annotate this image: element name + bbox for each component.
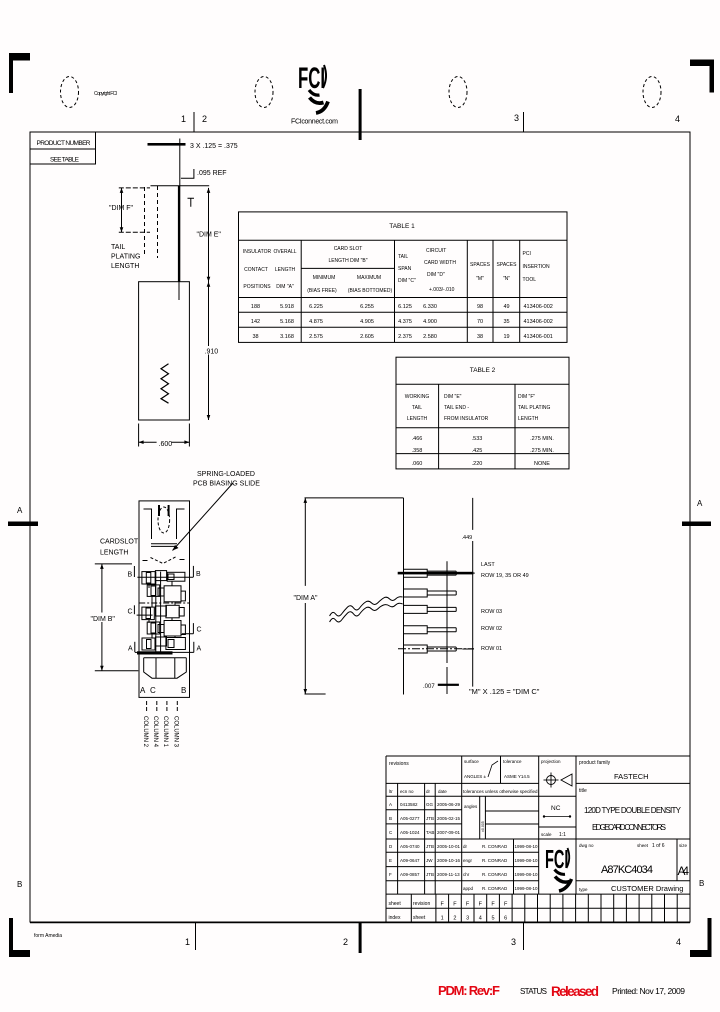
table 1 outer box	[239, 212, 568, 343]
svg-text:TAIL: TAIL	[111, 244, 125, 251]
svg-text:COLUMN 1: COLUMN 1	[162, 716, 168, 748]
svg-text:CONTACT: CONTACT	[244, 267, 268, 273]
svg-text:C: C	[150, 686, 156, 695]
svg-text:INSERTION: INSERTION	[523, 264, 551, 270]
svg-text:4: 4	[675, 114, 680, 124]
svg-text:COLUMN 4: COLUMN 4	[152, 716, 158, 748]
svg-text:6.330: 6.330	[423, 304, 437, 310]
svg-text:38: 38	[252, 334, 258, 340]
svg-text:appd: appd	[463, 886, 474, 891]
cluster dash-dot line	[139, 602, 190, 604]
connector body outline	[139, 501, 190, 698]
svg-text:+.003/-.010: +.003/-.010	[429, 287, 455, 293]
label .910	[204, 346, 219, 355]
svg-text:5: 5	[491, 916, 494, 922]
column ticks	[146, 701, 148, 712]
pin 4	[404, 626, 457, 634]
svg-text:2005-02-15: 2005-02-15	[437, 816, 461, 821]
svg-text:C: C	[389, 830, 393, 835]
dim A top extension	[305, 497, 404, 499]
svg-text:TOOL: TOOL	[523, 277, 537, 283]
svg-text:ASME Y14.5: ASME Y14.5	[504, 774, 530, 779]
svg-text:STATUS: STATUS	[520, 987, 547, 996]
svg-text:.275 MIN.: .275 MIN.	[530, 436, 554, 442]
svg-text:5.918: 5.918	[280, 304, 294, 310]
svg-text:LENGTH: LENGTH	[407, 416, 428, 422]
svg-text:19: 19	[503, 334, 509, 340]
svg-text:index: index	[389, 915, 401, 921]
svg-text:1: 1	[441, 916, 444, 922]
svg-text:B: B	[17, 880, 22, 889]
svg-text:INSULATOR: INSULATOR	[243, 249, 272, 255]
svg-text:"DIM A": "DIM A"	[294, 595, 319, 602]
svg-text:surface: surface	[464, 759, 479, 764]
svg-text:2.580: 2.580	[423, 334, 437, 340]
svg-text:.007: .007	[423, 684, 435, 690]
svg-text:.095 REF: .095 REF	[197, 170, 227, 177]
svg-text:A05-1024: A05-1024	[400, 830, 420, 835]
hidden line left	[144, 187, 146, 257]
zone tick left	[8, 522, 38, 527]
svg-text:2.605: 2.605	[360, 334, 374, 340]
svg-text:LENGTH: LENGTH	[100, 550, 128, 557]
registration ellipse 4	[643, 77, 661, 108]
svg-text:TAB: TAB	[426, 830, 434, 835]
svg-text:"M" X .125 = "DIM C": "M" X .125 = "DIM C"	[469, 687, 540, 696]
svg-text:TABLE 2: TABLE 2	[470, 367, 496, 374]
corner mark top-right	[690, 60, 714, 93]
svg-text:ROW 02: ROW 02	[481, 626, 502, 632]
svg-text:angles: angles	[464, 804, 478, 809]
pcb centerline vertical	[179, 139, 181, 187]
svg-text:0413582: 0413582	[400, 802, 418, 807]
registration ellipse 1	[61, 77, 79, 108]
svg-text:3: 3	[514, 113, 519, 123]
zone tick bottom center	[359, 922, 362, 953]
svg-text:A05-0740: A05-0740	[400, 844, 420, 849]
svg-text:ANGLES ±: ANGLES ±	[464, 774, 487, 779]
dim B extension bottom	[95, 670, 139, 672]
table 2 outer box	[396, 357, 569, 469]
svg-text:1999-08-10: 1999-08-10	[515, 872, 539, 877]
svg-text:title: title	[579, 788, 587, 794]
svg-text:4: 4	[676, 937, 681, 947]
svg-text:LENGTH: LENGTH	[111, 263, 139, 270]
svg-text:R. CONRAD: R. CONRAD	[482, 872, 508, 877]
corner mark bottom-right	[690, 918, 712, 957]
table 1 data row 2	[251, 319, 553, 325]
svg-text:B: B	[196, 571, 201, 578]
pin 2	[404, 589, 457, 597]
svg-text:F: F	[441, 902, 445, 908]
svg-text:.425: .425	[472, 448, 483, 454]
bracket .095	[181, 169, 194, 178]
hidden line right	[157, 186, 159, 258]
svg-text:PLATING: PLATING	[111, 254, 140, 261]
svg-text:FCIconnect.com: FCIconnect.com	[291, 119, 338, 126]
svg-text:1 of 6: 1 of 6	[652, 843, 665, 849]
table 1 data row 1	[251, 304, 553, 310]
svg-text:F: F	[504, 902, 508, 908]
svg-text:F: F	[453, 902, 457, 908]
insulator body rect	[139, 282, 190, 420]
svg-text:size: size	[679, 843, 687, 848]
svg-text:"DIM B": "DIM B"	[91, 616, 116, 623]
svg-text:6: 6	[504, 916, 507, 922]
svg-text:LENGTH: LENGTH	[518, 416, 539, 422]
svg-text:A: A	[389, 802, 392, 807]
slide right bracket	[177, 509, 185, 539]
svg-text:4: 4	[479, 916, 482, 922]
svg-text:CARDSLOT: CARDSLOT	[100, 539, 139, 546]
svg-text:LENGTH: LENGTH	[275, 267, 296, 273]
svg-text:SPACES: SPACES	[497, 262, 518, 268]
svg-text:B: B	[181, 686, 186, 695]
registration ellipse 2	[255, 77, 273, 108]
dim B dimension line	[101, 564, 103, 671]
svg-text:date: date	[438, 789, 447, 794]
svg-text:142: 142	[251, 319, 260, 325]
svg-text:4.875: 4.875	[309, 319, 323, 325]
insulator face line	[403, 498, 405, 695]
insulator top line	[151, 185, 210, 187]
svg-text:A05-0277: A05-0277	[400, 816, 420, 821]
svg-text:3.168: 3.168	[280, 334, 294, 340]
contact group row3	[142, 605, 184, 623]
svg-text:A: A	[128, 646, 133, 653]
table 1 data row 3	[252, 334, 552, 340]
svg-text:A4: A4	[678, 864, 690, 878]
svg-text:TABLE 1: TABLE 1	[389, 223, 415, 230]
svg-text:6.225: 6.225	[309, 304, 323, 310]
svg-text:revisions: revisions	[389, 761, 409, 767]
svg-text:JTB: JTB	[426, 816, 434, 821]
dim B extension top	[95, 563, 132, 565]
registration ellipse 3	[449, 77, 467, 108]
FCI logo top	[298, 62, 328, 113]
svg-text:1999-08-10: 1999-08-10	[515, 886, 539, 891]
svg-text:sheet: sheet	[637, 843, 649, 848]
svg-text:A09-0857: A09-0857	[400, 872, 420, 877]
title block vertical lines	[397, 783, 399, 894]
zone divider top 1	[193, 112, 195, 132]
svg-text:DIM "C": DIM "C"	[398, 278, 416, 284]
svg-text:F: F	[389, 872, 392, 877]
zone divider bottom 1	[195, 922, 197, 950]
zone divider top 2	[523, 112, 525, 132]
dim A dimension line	[304, 498, 306, 694]
svg-text:35: 35	[503, 319, 509, 325]
svg-text:3: 3	[466, 916, 469, 922]
svg-text:B: B	[128, 572, 133, 579]
svg-text:.358: .358	[412, 448, 423, 454]
svg-text:2005-10-01: 2005-10-01	[437, 844, 461, 849]
svg-text:sheet: sheet	[389, 901, 402, 907]
svg-text:2.575: 2.575	[309, 334, 323, 340]
svg-text:dr: dr	[463, 844, 468, 849]
svg-text:2: 2	[202, 114, 207, 124]
svg-text:"N": "N"	[503, 276, 510, 282]
svg-text:.466: .466	[412, 436, 423, 442]
svg-text:GG: GG	[426, 802, 434, 807]
dim F dimension line	[121, 188, 123, 232]
slide chevron dashed	[151, 557, 177, 564]
svg-text:2007-09-01: 2007-09-01	[437, 830, 461, 835]
svg-text:F: F	[479, 902, 483, 908]
dim .449 ticks	[459, 572, 475, 574]
svg-text:1999-08-10: 1999-08-10	[515, 858, 539, 863]
contact group row2	[147, 585, 185, 607]
svg-text:38: 38	[477, 334, 483, 340]
svg-text:2009-10-16: 2009-10-16	[437, 858, 461, 863]
dim .600 line	[139, 441, 190, 443]
svg-text:R. CONRAD: R. CONRAD	[482, 844, 508, 849]
svg-text:49: 49	[503, 304, 509, 310]
dim .449 line	[472, 498, 474, 687]
FCI logo title block	[545, 846, 572, 891]
svg-text:dr: dr	[426, 789, 431, 794]
svg-text:FASTECH: FASTECH	[614, 772, 649, 781]
contact group row4	[147, 621, 185, 639]
svg-text:F: F	[466, 902, 470, 908]
svg-text:NC: NC	[551, 805, 561, 812]
slide oval posts	[158, 505, 160, 516]
svg-text:(BIAS BOTTOMED): (BIAS BOTTOMED)	[348, 288, 393, 294]
svg-text:4.375: 4.375	[398, 319, 412, 325]
svg-text:TAIL: TAIL	[398, 254, 408, 260]
svg-text:413406-001: 413406-001	[524, 334, 553, 340]
svg-text:scale: scale	[541, 832, 552, 837]
table 1 grid	[239, 239, 568, 241]
svg-text:188: 188	[251, 304, 260, 310]
label DIM B	[90, 613, 113, 623]
svg-text:FROM INSULATOR: FROM INSULATOR	[444, 416, 489, 422]
svg-text:ROW 19, 35 OR 49: ROW 19, 35 OR 49	[481, 573, 529, 579]
svg-text:(BIAS FREE): (BIAS FREE)	[307, 288, 337, 294]
svg-text:sheet: sheet	[413, 915, 426, 921]
svg-text:4.905: 4.905	[360, 319, 374, 325]
svg-text:ecn no: ecn no	[400, 789, 414, 794]
svg-text:D: D	[389, 844, 393, 849]
svg-text:SEE TABLE: SEE TABLE	[50, 157, 80, 164]
cluster center rails	[156, 572, 161, 652]
pin centerline vertical	[446, 561, 448, 663]
contact squiggle	[161, 364, 169, 404]
svg-text:2: 2	[343, 937, 348, 947]
break wavy lines	[330, 597, 403, 616]
bottom cup	[144, 658, 187, 678]
svg-text:"M": "M"	[476, 276, 484, 282]
svg-text:3 X .125 = .375: 3 X .125 = .375	[190, 143, 238, 150]
svg-text:PCI: PCI	[523, 251, 531, 257]
svg-text:413406-002: 413406-002	[524, 319, 553, 325]
svg-text:DIM "E": DIM "E"	[444, 394, 462, 400]
tick .095	[188, 198, 195, 207]
svg-text:98: 98	[477, 304, 483, 310]
datum cross	[446, 667, 448, 694]
svg-text:120D TYPE DOUBLE DENSITY: 120D TYPE DOUBLE DENSITY	[584, 806, 682, 815]
svg-text:JTB: JTB	[426, 872, 434, 877]
svg-text:1: 1	[181, 114, 186, 124]
svg-text:2: 2	[453, 916, 456, 922]
svg-text:NONE: NONE	[534, 461, 550, 467]
zone divider bottom 2	[523, 922, 525, 950]
svg-text:.533: .533	[472, 436, 483, 442]
svg-text:1999-08-10: 1999-08-10	[515, 844, 539, 849]
svg-text:MAXIMUM: MAXIMUM	[357, 275, 381, 281]
svg-text:FCI: FCI	[298, 62, 325, 95]
svg-text:.220: .220	[472, 461, 483, 467]
svg-text:DIM "D": DIM "D"	[427, 272, 445, 278]
svg-text:6.125: 6.125	[398, 304, 412, 310]
svg-text:R. CONRAD: R. CONRAD	[482, 886, 508, 891]
svg-text:COLUMN 3: COLUMN 3	[173, 716, 179, 748]
svg-text:OVERALL: OVERALL	[273, 249, 296, 255]
svg-text:413406-002: 413406-002	[524, 304, 553, 310]
svg-text:DIM "A": DIM "A"	[276, 284, 294, 290]
title block horizontal lines	[386, 782, 539, 784]
product number box	[30, 132, 96, 164]
svg-text:PCB BIASING SLIDE: PCB BIASING SLIDE	[193, 481, 260, 488]
svg-text:A: A	[197, 646, 202, 653]
svg-text:WORKING: WORKING	[405, 394, 430, 400]
svg-text:C: C	[197, 627, 202, 634]
row line A with thick bar	[135, 651, 194, 653]
svg-text:PDM: Rev:F: PDM: Rev:F	[438, 983, 500, 998]
svg-text:projection: projection	[541, 759, 561, 764]
pcb edge bar	[148, 143, 186, 146]
svg-text:CARD WIDTH: CARD WIDTH	[424, 260, 456, 266]
svg-text:.060: .060	[412, 461, 423, 467]
svg-text:POSITIONS: POSITIONS	[243, 284, 271, 290]
approval rows	[463, 844, 538, 891]
svg-text:CUSTOMER Drawing: CUSTOMER Drawing	[611, 884, 683, 893]
svg-text:LENGTH DIM "B": LENGTH DIM "B"	[328, 258, 367, 264]
svg-text:2.375: 2.375	[398, 334, 412, 340]
svg-text:"DIM F": "DIM F"	[109, 205, 134, 212]
svg-text:Copyright FCI: Copyright FCI	[94, 91, 117, 97]
svg-text:4.900: 4.900	[423, 319, 437, 325]
zone tick top center	[359, 89, 362, 140]
svg-text:.449: .449	[462, 535, 473, 541]
zone tick right	[682, 522, 711, 527]
svg-text:A87KC4034: A87KC4034	[601, 864, 653, 876]
svg-text:revision: revision	[413, 901, 430, 907]
pin 3	[404, 605, 457, 613]
svg-text:engr: engr	[463, 858, 473, 863]
row line C short	[137, 614, 153, 616]
contact group row1	[142, 571, 185, 588]
svg-text:EDGECARD CONNECTORS: EDGECARD CONNECTORS	[592, 823, 666, 832]
slide left bracket	[144, 509, 152, 539]
svg-text:.600: .600	[159, 441, 173, 448]
svg-text:C: C	[128, 609, 133, 616]
svg-text:B: B	[389, 816, 392, 821]
svg-text:TAIL PLATING: TAIL PLATING	[518, 405, 551, 411]
revision rows	[389, 802, 461, 877]
svg-text:70: 70	[477, 319, 483, 325]
svg-text:form Amedia: form Amedia	[34, 933, 62, 939]
svg-text:TAIL END -: TAIL END -	[444, 405, 469, 411]
svg-text:ROW 01: ROW 01	[481, 646, 502, 652]
contact tail thick	[178, 186, 180, 282]
svg-text:CARD SLOT: CARD SLOT	[334, 246, 363, 252]
svg-text:dwg no: dwg no	[579, 843, 594, 848]
svg-text:chr: chr	[463, 872, 470, 877]
sheet index grid	[436, 894, 677, 922]
svg-text:DIM "F": DIM "F"	[518, 394, 535, 400]
svg-text:A09-0647: A09-0647	[400, 858, 420, 863]
svg-text:R. CONRAD: R. CONRAD	[482, 858, 508, 863]
svg-text:±0.005: ±0.005	[481, 821, 485, 832]
table 2 grid	[396, 383, 569, 385]
svg-text:MINIMUM: MINIMUM	[313, 275, 336, 281]
contact group row5	[142, 637, 185, 650]
svg-text:1: 1	[185, 937, 190, 947]
slide base double line	[151, 544, 177, 547]
title block outline	[386, 756, 690, 922]
svg-text:PRODUCT NUMBER: PRODUCT NUMBER	[37, 140, 91, 147]
svg-text:E: E	[389, 858, 392, 863]
svg-text:TAIL: TAIL	[412, 405, 422, 411]
svg-text:COLUMN 2: COLUMN 2	[142, 716, 148, 748]
table 2 data	[412, 436, 555, 467]
svg-text:SPACES: SPACES	[470, 262, 491, 268]
drawing frame border	[30, 132, 690, 922]
pin row 01	[398, 645, 474, 653]
svg-text:B: B	[699, 879, 704, 888]
svg-text:Printed: Nov 17, 2009: Printed: Nov 17, 2009	[612, 986, 685, 996]
svg-text:1:1: 1:1	[559, 832, 566, 838]
svg-text:.275 MIN.: .275 MIN.	[530, 448, 554, 454]
svg-text:2005-06-29: 2005-06-29	[437, 802, 461, 807]
svg-text:.910: .910	[205, 349, 219, 356]
svg-text:F: F	[491, 902, 495, 908]
slide oval dashed	[158, 507, 170, 533]
dim A bottom extension	[305, 693, 326, 695]
svg-text:2009-11-13: 2009-11-13	[437, 872, 460, 877]
dim E and .910 dimension line	[208, 188, 210, 420]
svg-text:CIRCUIT: CIRCUIT	[426, 248, 446, 254]
svg-text:type: type	[579, 887, 588, 892]
dim .600 extensions	[138, 424, 140, 447]
svg-text:ltr: ltr	[389, 789, 393, 794]
svg-text:6.255: 6.255	[360, 304, 374, 310]
svg-text:A: A	[17, 506, 23, 515]
row line B	[137, 576, 193, 578]
leader line	[173, 483, 234, 551]
svg-text:JTB: JTB	[426, 844, 434, 849]
svg-text:tolerances unless otherwise sp: tolerances unless otherwise specified	[463, 789, 538, 794]
svg-text:LAST: LAST	[481, 562, 495, 568]
pin last row	[398, 569, 474, 577]
svg-text:JW: JW	[426, 858, 433, 863]
svg-text:3: 3	[511, 937, 516, 947]
svg-text:SPRING-LOADED: SPRING-LOADED	[197, 471, 255, 478]
svg-text:tolerance: tolerance	[503, 759, 522, 764]
svg-text:ROW 03: ROW 03	[481, 609, 502, 615]
svg-text:A: A	[140, 686, 146, 695]
corner mark top-left	[9, 53, 30, 93]
dim F extension top	[119, 187, 150, 189]
svg-text:Released: Released	[551, 984, 599, 999]
dim F extension bottom	[119, 231, 150, 233]
svg-text:5.168: 5.168	[280, 319, 294, 325]
svg-text:A: A	[697, 499, 703, 508]
svg-text:SPAN: SPAN	[398, 266, 412, 272]
svg-text:product family: product family	[579, 760, 611, 766]
corner mark bottom-left	[9, 918, 30, 957]
